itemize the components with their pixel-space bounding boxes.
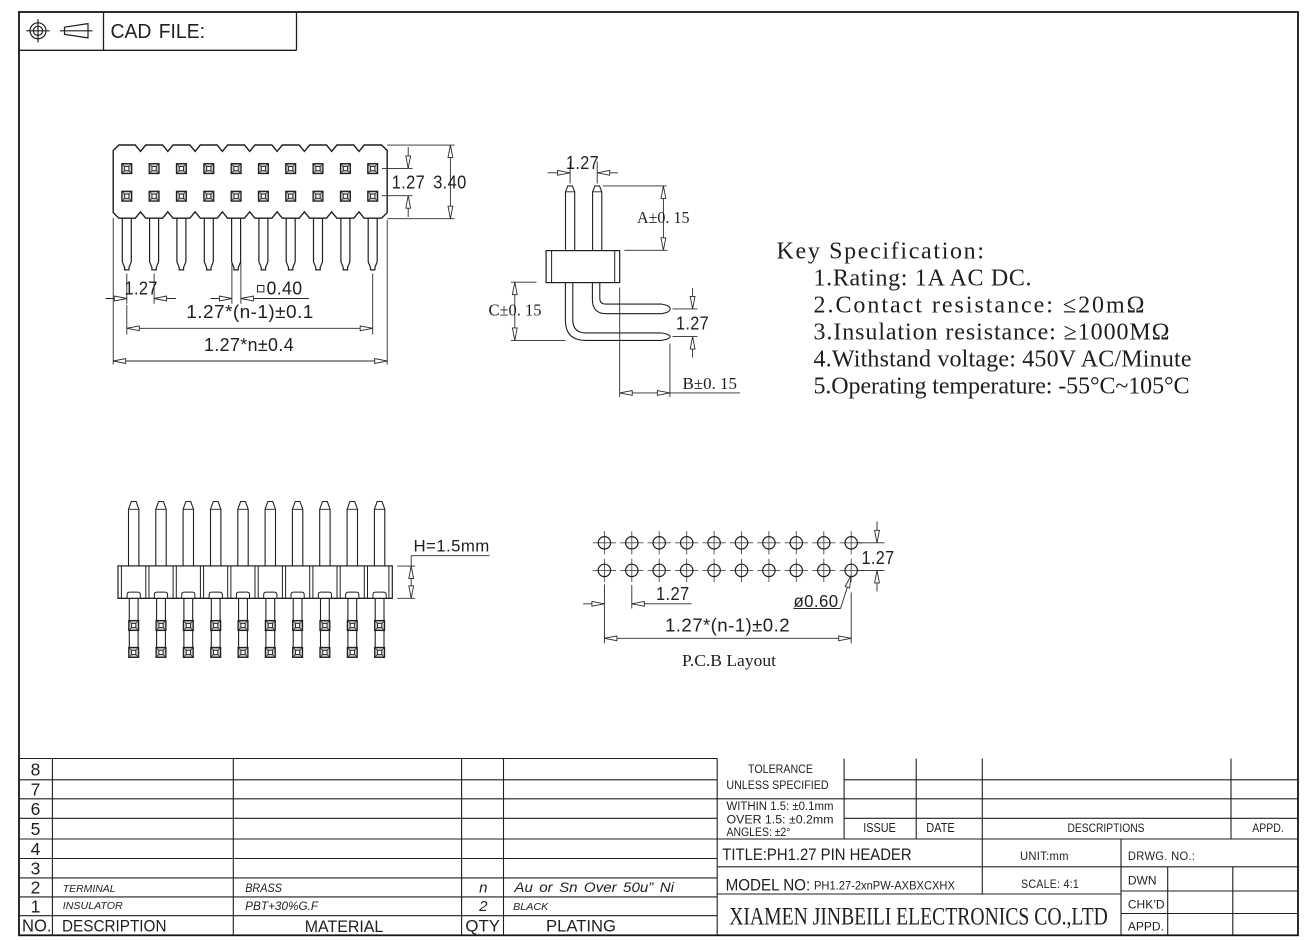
svg-text:6: 6 (31, 799, 41, 819)
svg-text:DWN: DWN (1128, 873, 1157, 887)
svg-text:5: 5 (31, 819, 41, 839)
svg-text:1.27*(n-1)±0.1: 1.27*(n-1)±0.1 (186, 302, 313, 322)
dimension 1.27*n±0.4 (112, 218, 114, 365)
svg-text:B±0. 15: B±0. 15 (683, 374, 738, 393)
svg-text:OVER 1.5: ±0.2mm: OVER 1.5: ±0.2mm (727, 815, 834, 827)
PCB layout pads (2 rows of 10 holes) (593, 531, 616, 554)
svg-text:INSULATOR: INSULATOR (63, 900, 123, 912)
svg-text:3.Insulation resistance: ≥1000: 3.Insulation resistance: ≥1000MΩ (814, 320, 1170, 346)
svg-text:1.27: 1.27 (656, 584, 690, 604)
svg-text:4.Withstand voltage: 450V AC/M: 4.Withstand voltage: 450V AC/Minute (814, 346, 1192, 372)
svg-text:QTY: QTY (465, 918, 500, 936)
CAD FILE header box (19, 49, 297, 51)
side view vertical pins (566, 186, 575, 251)
svg-text:2: 2 (31, 878, 41, 898)
svg-text:DESCRIPTION: DESCRIPTION (62, 918, 167, 936)
svg-text:1.27: 1.27 (862, 548, 895, 568)
bottom view straight pins up (129, 502, 139, 566)
svg-text:TITLE:PH1.27 PIN HEADER: TITLE:PH1.27 PIN HEADER (722, 846, 911, 864)
side view bent pin rear (lower) (565, 283, 661, 341)
svg-text:ø0.60: ø0.60 (794, 591, 839, 611)
svg-text:APPD.: APPD. (1128, 919, 1164, 933)
svg-text:TOLERANCE: TOLERANCE (748, 764, 813, 776)
first-angle projection target symbol (26, 19, 49, 42)
svg-text:UNLESS SPECIFIED: UNLESS SPECIFIED (726, 780, 828, 792)
dimension square 0.40 pin size (231, 262, 233, 304)
dimension 1.27 row spacing and 3.40 height (front right) (387, 144, 454, 146)
svg-text:1.27*(n-1)±0.2: 1.27*(n-1)±0.2 (665, 616, 790, 636)
svg-text:P.C.B Layout: P.C.B Layout (682, 651, 776, 670)
svg-text:8: 8 (31, 759, 41, 779)
dimension H=1.5mm (397, 565, 415, 567)
bottom view insulator strip (118, 566, 392, 599)
svg-text:Key Specification:: Key Specification: (777, 239, 985, 265)
title block grid (19, 758, 717, 760)
svg-text:BLACK: BLACK (513, 901, 549, 913)
svg-text:1.27: 1.27 (392, 172, 425, 192)
svg-text:H=1.5mm: H=1.5mm (414, 537, 490, 556)
svg-text:4: 4 (31, 839, 41, 859)
svg-text:1: 1 (31, 897, 41, 917)
svg-text:0.40: 0.40 (267, 279, 303, 299)
dimension A±0.15 (603, 185, 667, 187)
svg-text:UNIT:mm: UNIT:mm (1020, 849, 1069, 863)
front view insulator body with scalloped edges (113, 145, 387, 218)
svg-text:1.27: 1.27 (566, 153, 599, 173)
dimension 1.27 row offset (side right) (673, 308, 698, 310)
dimension 1.27 row spacing (pcb right) (858, 542, 885, 544)
svg-text:3.40: 3.40 (433, 172, 466, 192)
svg-text:PBT+30%G.F: PBT+30%G.F (245, 901, 319, 913)
svg-text:MATERIAL: MATERIAL (305, 918, 384, 936)
svg-text:BRASS: BRASS (245, 883, 282, 895)
strip segment joints (145, 566, 147, 599)
svg-text:C±0. 15: C±0. 15 (489, 301, 542, 320)
svg-text:1.27: 1.27 (676, 314, 709, 334)
dimension B±0.15 (619, 288, 621, 397)
svg-text:XIAMEN JINBEILI ELECTRONICS CO: XIAMEN JINBEILI ELECTRONICS CO.,LTD (729, 904, 1108, 931)
dimension 1.27*(n-1)±0.1 (126, 305, 128, 335)
svg-text:n: n (479, 880, 488, 897)
svg-text:DRWG. NO.:: DRWG. NO.: (1128, 849, 1195, 863)
svg-text:5.Operating temperature: -55°C: 5.Operating temperature: -55°C~105°C (814, 373, 1190, 399)
front view contact squares row 1 and row 2 (122, 164, 132, 174)
projection cone symbol (60, 24, 93, 38)
svg-text:1.Rating: 1A AC DC.: 1.Rating: 1A AC DC. (814, 266, 1032, 292)
svg-text:1.27*n±0.4: 1.27*n±0.4 (204, 335, 294, 355)
dimension 1.27*(n-1)±0.2 (850, 593, 852, 644)
svg-text:SCALE: 4:1: SCALE: 4:1 (1021, 877, 1079, 891)
front view bottom pins (122, 218, 131, 270)
svg-text:A±0. 15: A±0. 15 (637, 208, 690, 227)
svg-text:WITHIN 1.5: ±0.1mm: WITHIN 1.5: ±0.1mm (727, 801, 834, 813)
dimension C±0.15 (511, 281, 537, 283)
svg-text:TERMINAL: TERMINAL (63, 883, 116, 895)
svg-text:DESCRIPTIONS: DESCRIPTIONS (1068, 821, 1145, 835)
side view insulator body (546, 251, 620, 283)
svg-text:Au or Sn Over 50u” Ni: Au or Sn Over 50u” Ni (513, 879, 675, 895)
svg-text:2: 2 (478, 898, 488, 915)
dimension 1.27 pin pitch (side top) (569, 162, 571, 184)
svg-text:PLATING: PLATING (546, 918, 616, 936)
dimension 1.27 pin pitch (front) (126, 274, 128, 304)
svg-text:ISSUE: ISSUE (863, 821, 896, 835)
svg-text:2.Contact resistance: ≤20mΩ: 2.Contact resistance: ≤20mΩ (814, 293, 1145, 319)
svg-text:7: 7 (31, 780, 41, 800)
svg-text:MODEL NO:: MODEL NO: (726, 877, 811, 895)
dimension 1.27 hole pitch (pcb) (603, 585, 605, 644)
bottom view solder tails with squares (128, 598, 130, 657)
svg-text:PH1.27-2xnPW-AXBXCXHX: PH1.27-2xnPW-AXBXCXHX (814, 879, 955, 893)
svg-text:3: 3 (31, 859, 41, 879)
svg-text:1.27: 1.27 (125, 279, 158, 299)
svg-text:ANGLES: ±2°: ANGLES: ±2° (727, 827, 791, 839)
svg-text:APPD.: APPD. (1252, 821, 1284, 835)
svg-text:NO.: NO. (22, 916, 52, 936)
retention bosses (127, 592, 140, 598)
side view bent pin front (upper) (592, 283, 661, 314)
svg-text:CAD FILE:: CAD FILE: (111, 21, 206, 43)
svg-text:DATE: DATE (926, 821, 955, 835)
svg-text:CHK’D: CHK’D (1128, 898, 1165, 912)
